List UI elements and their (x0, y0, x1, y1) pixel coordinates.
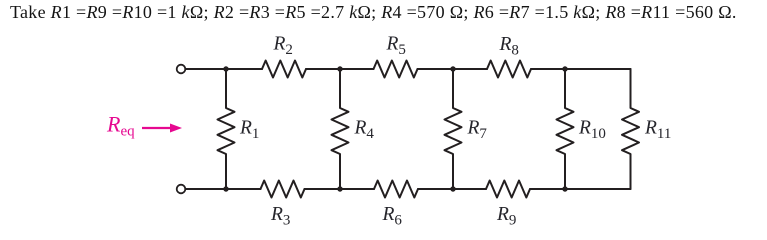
resistor R3 (261, 181, 305, 198)
node dot R10 bottom (562, 186, 567, 191)
wire top rail: terminal to R2 (186, 68, 263, 70)
svg-text:R3: R3 (270, 204, 290, 227)
node dot R7 bottom (450, 186, 455, 191)
svg-text:R6: R6 (382, 204, 403, 227)
node dot R4 top (337, 66, 342, 71)
resistor R1 (218, 69, 235, 189)
wire top rail: R2 to R5 (306, 68, 374, 70)
svg-text:R10: R10 (578, 118, 606, 143)
node dot R7 top (450, 66, 455, 71)
resistor R6 (374, 181, 418, 198)
terminal top-left (177, 65, 186, 74)
resistor R11 (right branch) (622, 69, 639, 189)
svg-text:R11: R11 (644, 118, 671, 143)
resistor R7 (445, 69, 462, 189)
node dot R10 top (562, 66, 567, 71)
caption text (10, 2, 737, 23)
node dot R4 bottom (337, 186, 342, 191)
wire top rail: R5 to R8 (418, 68, 488, 70)
svg-text:Req: Req (106, 112, 135, 140)
svg-text:R5: R5 (386, 34, 406, 59)
svg-text:R1: R1 (239, 118, 259, 143)
svg-text:R4: R4 (354, 118, 375, 143)
svg-text:R7: R7 (467, 118, 488, 143)
svg-text:R2: R2 (273, 34, 293, 59)
resistor R4 (332, 69, 349, 189)
resistor R5 (374, 61, 418, 78)
wire bottom rail: R3 to R6 (305, 188, 375, 190)
wire bottom rail: R9 to bottom-right corner (530, 188, 631, 190)
resistor R2 (262, 61, 306, 78)
arrow Req (142, 124, 182, 133)
node dot R1 top (223, 66, 228, 71)
wire top rail: R8 to top-right corner (531, 68, 631, 70)
terminal bottom-left (177, 185, 186, 194)
wire bottom rail: R6 to R9 (418, 188, 486, 190)
node dot R1 bottom (223, 186, 228, 191)
wire bottom rail: terminal to R3 (186, 188, 261, 190)
resistor R10 (557, 69, 574, 189)
svg-text:R8: R8 (499, 34, 519, 59)
svg-text:R9: R9 (496, 204, 516, 227)
resistor R9 (486, 181, 530, 198)
resistor R8 (487, 61, 531, 78)
